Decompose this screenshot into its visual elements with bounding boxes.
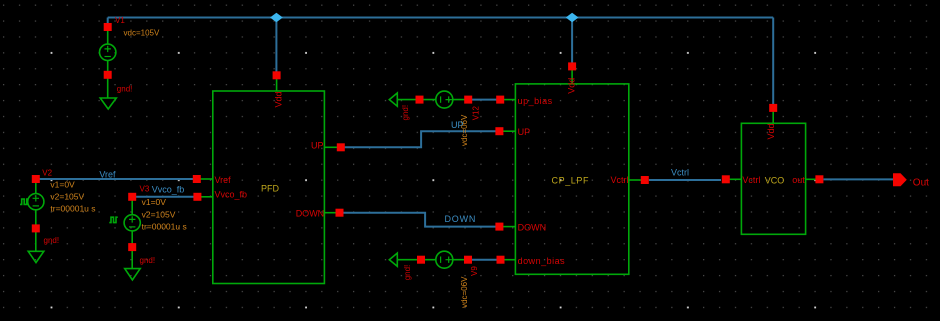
svg-text:Vref: Vref [215,175,232,185]
svg-text:v2=105V: v2=105V [50,192,84,202]
svg-text:v1=0V: v1=0V [142,197,167,207]
svg-text:Vdd: Vdd [766,123,776,139]
svg-text:CP_LPF: CP_LPF [552,175,590,185]
svg-text:gnd!: gnd! [403,265,412,281]
svg-text:PFD: PFD [261,183,280,193]
svg-text:vdc=105V: vdc=105V [124,28,160,37]
svg-text:vdc=06V: vdc=06V [460,276,469,308]
svg-text:tr=00001u s: tr=00001u s [50,204,95,214]
svg-text:v2=105V: v2=105V [142,209,176,219]
svg-text:UP: UP [451,120,464,130]
svg-text:Vdd: Vdd [273,91,283,107]
svg-text:Vctrl: Vctrl [742,175,760,185]
svg-text:v1=0V: v1=0V [50,179,75,189]
svg-text:Vctrl: Vctrl [611,175,629,185]
svg-text:up_bias: up_bias [518,96,553,106]
svg-text:DOWN: DOWN [518,223,547,233]
svg-text:V2: V2 [42,168,52,177]
svg-text:Vvco_fb: Vvco_fb [152,184,185,194]
svg-text:V9: V9 [470,266,479,276]
svg-text:out: out [792,175,805,185]
svg-text:gnd!: gnd! [117,85,133,94]
svg-text:gnd!: gnd! [140,256,156,265]
svg-text:Out: Out [913,178,929,189]
svg-text:VCO: VCO [765,175,785,185]
svg-text:Vvco_fb: Vvco_fb [215,190,248,200]
svg-text:Vctrl: Vctrl [671,167,689,177]
svg-text:V12: V12 [472,106,481,121]
svg-text:DOWN: DOWN [445,214,477,224]
svg-text:V1: V1 [115,16,125,25]
svg-text:gnd!: gnd! [44,236,60,245]
svg-text:tr=00001u s: tr=00001u s [142,222,187,232]
svg-text:UP: UP [518,127,531,137]
svg-text:down_bias: down_bias [518,256,566,266]
svg-text:Vref: Vref [99,169,116,179]
svg-text:UP: UP [311,140,324,150]
svg-text:V3: V3 [140,184,150,193]
svg-text:gnd!: gnd! [401,105,410,121]
svg-text:DOWN: DOWN [296,208,325,218]
svg-text:Vdd: Vdd [567,78,577,94]
